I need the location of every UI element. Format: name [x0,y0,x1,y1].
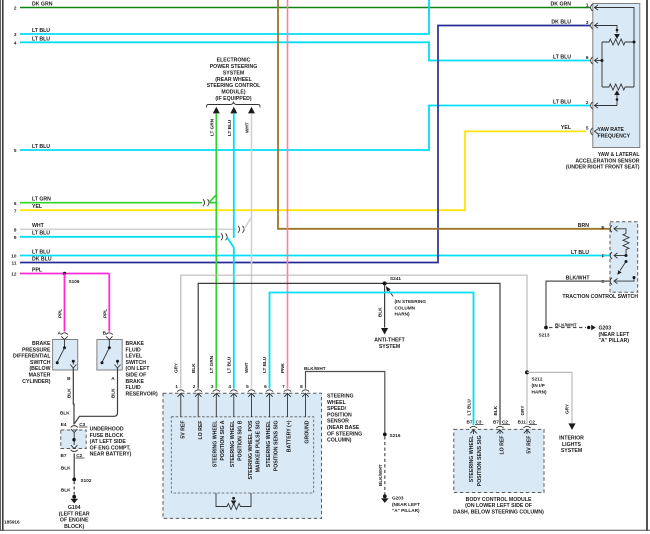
svg-text:B11: B11 [518,419,527,424]
svg-text:BRAKE: BRAKE [126,379,145,385]
svg-text:2: 2 [14,6,17,11]
interior lights system label [559,436,584,455]
svg-text:LIGHTS: LIGHTS [562,442,582,448]
svg-text:B7: B7 [467,419,473,424]
svg-text:LT BLU: LT BLU [227,356,232,373]
svg-text:HARN): HARN) [532,389,548,394]
svg-text:INTERIOR: INTERIOR [559,436,584,442]
svg-text:WHEEL: WHEEL [327,400,347,406]
svg-text:SYSTEM: SYSTEM [379,344,400,350]
ground G203 right [587,326,590,329]
svg-text:5: 5 [246,384,249,389]
svg-text:2: 2 [193,384,196,389]
svg-text:POSITION SENS SIG: POSITION SENS SIG [273,421,279,472]
yaw sensor box U1 [593,4,640,148]
svg-text:FREQUENCY: FREQUENCY [598,134,631,140]
svg-text:G104: G104 [68,505,81,511]
underhood fuse block internal wire [73,433,75,446]
svg-text:(NEAR BASE: (NEAR BASE [327,425,360,431]
svg-text:S102: S102 [81,478,92,483]
svg-text:STEERING WHEEL: STEERING WHEEL [230,420,236,468]
traction control switch box [610,222,638,292]
svg-text:3: 3 [586,20,589,25]
svg-text:6: 6 [586,55,589,60]
svg-text:SYSTEM: SYSTEM [223,70,244,76]
svg-text:G203: G203 [392,496,404,501]
svg-text:ELECTRONIC: ELECTRONIC [217,58,251,64]
svg-text:GRY: GRY [174,362,179,373]
wire 6 inline connector [203,199,209,206]
svg-text:BRAKE: BRAKE [32,341,51,347]
svg-text:BLK/WHT: BLK/WHT [555,322,577,327]
svg-text:(NEAR LEFT: (NEAR LEFT [392,502,420,507]
svg-text:S216: S216 [390,433,401,438]
BLK/WHT wire traction pin C to S213 [546,281,610,326]
LT BLU vertical wire to sensor pin 4 [233,248,235,389]
svg-text:4: 4 [14,41,17,46]
svg-text:C3: C3 [79,422,85,427]
svg-text:(NEAR LEFT: (NEAR LEFT [599,332,631,338]
svg-text:NEAR BATTERY): NEAR BATTERY) [90,452,132,458]
label brake pressure differential switch [13,341,51,385]
svg-text:E: E [601,225,604,230]
svg-text:"A" PILLAR): "A" PILLAR) [392,508,420,513]
GRY wire S212 to interior lights [527,372,572,423]
svg-text:LT BLU: LT BLU [553,99,571,105]
svg-text:ANTI-THEFT: ANTI-THEFT [374,338,405,344]
svg-text:BLK/WHT: BLK/WHT [566,275,591,281]
EPS arrow LT GRN [213,107,220,114]
svg-text:C2: C2 [76,453,82,458]
svg-text:SWITCH: SWITCH [30,360,51,366]
BRN wire to traction control switch pin E [278,0,610,229]
wire 9 stub to pin 4 vertical [227,237,234,247]
svg-text:SENSOR: SENSOR [327,419,349,425]
svg-text:FLUID: FLUID [126,347,142,353]
svg-text:5: 5 [14,148,17,153]
BLK/WHT dashed wire S213 to G203 [549,327,586,329]
svg-text:PPL: PPL [102,309,107,318]
svg-text:STEERING WHEEL POS: STEERING WHEEL POS [248,420,254,480]
svg-text:(REAR WHEEL: (REAR WHEEL [215,77,252,83]
connector B7 C2 [71,445,77,448]
svg-text:(ON LEFT: (ON LEFT [126,366,151,372]
WHT vertical wire EPS to sensor pin 5 [251,113,253,388]
yaw internal wire pin1 to right rail [595,8,635,88]
svg-text:B7: B7 [493,419,499,424]
brace over EPS arrows [207,102,261,108]
svg-text:LT GRN: LT GRN [210,118,215,136]
svg-text:POWER STEERING: POWER STEERING [210,64,258,70]
svg-text:MARKER PULSE SIG: MARKER PULSE SIG [255,421,261,473]
splice S106 [63,272,67,276]
svg-text:12: 12 [11,272,17,277]
svg-text:2: 2 [586,100,589,105]
svg-text:LT BLU: LT BLU [571,250,589,256]
svg-text:7: 7 [282,384,285,389]
svg-text:LT GRN: LT GRN [32,197,51,203]
PPL wire to brake fluid level switch pin B [108,274,110,332]
label underhood fuse block [90,427,132,458]
svg-text:SYSTEM: SYSTEM [561,448,582,454]
svg-text:LT BLU: LT BLU [32,249,50,255]
svg-text:STEERING: STEERING [327,394,354,400]
PNK vertical wire to sensor pin 7 [287,0,289,389]
svg-text:(LEFT REAR: (LEFT REAR [59,511,90,517]
svg-text:10: 10 [11,254,17,259]
sensor inner module box [171,417,313,493]
svg-text:LEVEL: LEVEL [126,354,144,360]
svg-text:C2: C2 [502,419,508,424]
svg-text:GROUND: GROUND [305,420,311,443]
body control module box [454,429,544,492]
svg-text:YAW & LATERAL: YAW & LATERAL [598,152,641,158]
svg-text:BRN: BRN [578,223,589,229]
svg-text:MODULE): MODULE) [221,90,245,96]
ground G203 lower [383,494,387,498]
brake fluid level switch box [97,340,122,371]
sensor internal potentiometer [216,493,251,510]
traction resistor [614,229,626,234]
svg-text:DK GRN: DK GRN [551,2,572,8]
svg-text:5V REF: 5V REF [527,436,533,454]
EPS arrow WHT [248,107,255,114]
svg-text:FUSE BLOCK: FUSE BLOCK [90,433,124,439]
sensor internal labels [181,420,311,480]
yaw internal wiper pin3 [595,26,618,34]
svg-text:CYLINDER): CYLINDER) [22,379,51,385]
in steering column harn label [395,299,427,317]
anti-theft system label [374,338,405,350]
underhood fuse block box [61,430,86,449]
BLK wire from switch 2 [75,368,118,424]
svg-text:185916: 185916 [4,520,20,525]
svg-text:POSITION: POSITION [327,412,352,418]
svg-text:E4: E4 [61,422,67,427]
svg-text:(UNDER RIGHT FRONT SEAT): (UNDER RIGHT FRONT SEAT) [566,165,640,171]
brake pressure differential switch internals [64,340,66,348]
svg-text:SWITCH: SWITCH [126,360,147,366]
svg-text:8: 8 [300,384,303,389]
svg-text:S106: S106 [69,279,80,284]
svg-text:PNK: PNK [280,362,285,373]
svg-text:STEERING WHEEL: STEERING WHEEL [469,435,475,483]
svg-text:B7: B7 [61,453,67,458]
ground G104 [72,495,76,499]
svg-text:8: 8 [14,228,17,233]
svg-text:11: 11 [12,261,17,266]
svg-text:(ON LOWER LEFT SIDE OF: (ON LOWER LEFT SIDE OF [465,503,532,509]
splice S216 [383,433,387,437]
EPS arrow LT BLU [230,107,237,114]
svg-text:COLUMN: COLUMN [395,305,416,310]
splice S241 [383,281,387,285]
svg-text:LT BLU: LT BLU [227,119,232,136]
svg-text:LO REF: LO REF [500,436,506,455]
brake fluid level switch internals [108,340,110,348]
splice S213 [544,326,548,330]
svg-text:GRY: GRY [520,405,525,416]
svg-text:BLK: BLK [67,388,72,398]
PPL wire S106 to brake pressure differential switch pin A [64,274,66,332]
svg-text:YAW RATE: YAW RATE [598,127,625,133]
svg-text:STEERING WHEEL: STEERING WHEEL [213,420,219,468]
svg-text:ACCELERATION SENSOR: ACCELERATION SENSOR [575,158,639,164]
svg-text:SIDE OF: SIDE OF [126,373,147,379]
svg-text:3: 3 [14,32,17,37]
svg-text:WHT: WHT [32,223,45,229]
LT BLU vertical wire EPS to wire 9 [233,113,235,238]
svg-text:MASTER: MASTER [29,373,51,379]
yaw left rail [601,42,603,87]
svg-text:PPL: PPL [58,309,63,318]
label brake fluid level switch [126,341,158,397]
BLK wire S241 to anti-theft [384,285,386,328]
svg-text:BLK: BLK [378,307,383,317]
svg-text:SPEED/: SPEED/ [327,406,347,412]
svg-text:BLK: BLK [61,488,71,493]
svg-text:BLK: BLK [111,388,116,398]
svg-text:5V REF: 5V REF [181,421,187,439]
svg-text:YEL: YEL [32,204,43,210]
svg-text:5: 5 [586,126,589,131]
svg-text:WHT: WHT [245,122,250,133]
svg-text:OF ENG COMPT,: OF ENG COMPT, [90,445,131,451]
svg-text:GRY: GRY [565,403,570,414]
BLK/WHT dashed wire S216 to G203 [384,436,386,494]
svg-text:BLOCK): BLOCK) [64,524,84,530]
svg-text:POSITION SIG A: POSITION SIG A [220,420,226,460]
svg-text:BLK/WHT: BLK/WHT [304,366,326,371]
brake pressure differential switch box [53,340,78,371]
svg-text:RESERVOIR): RESERVOIR) [126,391,158,397]
svg-text:DK BLU: DK BLU [551,19,571,25]
yaw sensor caption [566,152,641,171]
svg-text:YEL: YEL [561,125,572,131]
svg-text:LT BLU: LT BLU [553,54,571,60]
BLK wire fuse block to S102 [73,453,75,477]
BLK wire sensor pin 2 to BCM B7 C2 [198,283,500,425]
yaw potentiometer R1 [602,39,634,45]
svg-text:7: 7 [14,208,17,213]
LT GRN vertical wire EPS to sensor pin 3 [215,113,217,388]
svg-text:(IN STEERING: (IN STEERING [395,299,427,304]
svg-text:BLK: BLK [493,405,498,415]
S241 leader arrow [388,289,393,296]
svg-text:(IF EQUIPPED): (IF EQUIPPED) [215,96,252,102]
svg-text:UNDERHOOD: UNDERHOOD [90,427,124,433]
svg-text:STEERING WHEEL: STEERING WHEEL [266,420,272,468]
svg-text:S213: S213 [539,333,550,338]
svg-text:1: 1 [586,2,589,7]
electronic power steering system label [207,58,261,102]
svg-text:LT BLU: LT BLU [32,144,50,150]
svg-text:LT BLU: LT BLU [262,356,267,373]
svg-text:S212: S212 [532,377,543,382]
traction switch lever [625,260,628,263]
splice S212 [525,370,529,374]
svg-text:STEERING CONTROL: STEERING CONTROL [207,83,261,89]
svg-text:BATTERY (+): BATTERY (+) [287,420,293,452]
svg-text:LO REF: LO REF [198,421,204,440]
svg-text:DK BLU: DK BLU [32,256,52,262]
svg-text:LT BLU: LT BLU [32,231,50,237]
svg-text:BLK: BLK [191,363,196,373]
svg-text:TRACTION CONTROL SWITCH: TRACTION CONTROL SWITCH [562,294,638,300]
BLK wire S102 to G104 [73,481,75,495]
svg-text:POSITION SENS SIG: POSITION SENS SIG [477,436,483,487]
wire 9 inline connector [221,233,227,240]
svg-text:C3: C3 [476,419,482,424]
svg-text:6: 6 [264,384,267,389]
wire 8 inline connector [238,226,244,233]
svg-text:"A" PILLAR): "A" PILLAR) [599,338,630,344]
svg-text:HARN): HARN) [395,312,411,317]
splice S102 [72,478,76,482]
svg-text:OF STEERING: OF STEERING [327,431,362,437]
svg-text:WHT: WHT [244,362,249,373]
svg-text:(AT LEFT SIDE: (AT LEFT SIDE [90,439,127,445]
svg-text:1: 1 [175,384,178,389]
svg-text:PPL: PPL [32,267,43,273]
wire 8 stub to WHT vertical [244,217,252,229]
BLK/WHT wire sensor pin 8 to S216 [306,372,385,433]
BCM internal labels [469,435,533,487]
svg-text:BLK/WHT: BLK/WHT [378,464,383,486]
svg-text:PRESSURE: PRESSURE [22,347,51,353]
svg-text:BLK: BLK [60,411,70,416]
svg-text:F: F [602,253,605,258]
wire 6 stub to LT GRN vertical [209,202,216,204]
svg-text:C2: C2 [529,419,535,424]
svg-text:OF ENGINE: OF ENGINE [60,518,89,524]
svg-text:LT BLU: LT BLU [467,399,472,416]
steering wheel speed/position sensor caption [327,394,362,444]
svg-text:LT GRN: LT GRN [209,355,214,373]
BLK wire from switch 1 [72,368,75,425]
svg-text:4: 4 [228,384,231,389]
yaw wiper pin2 [614,90,620,95]
svg-text:9: 9 [14,235,17,240]
yaw potentiometer R2 [602,84,634,90]
svg-text:FLUID: FLUID [126,385,142,391]
svg-text:S241: S241 [390,276,401,281]
svg-text:(IN I/P: (IN I/P [532,383,545,388]
body control module caption [453,497,544,516]
svg-text:COLUMN): COLUMN) [327,438,352,444]
GRY wire sensor pin 1 to BCM B11 C2 [181,275,527,425]
svg-text:BRAKE: BRAKE [126,341,145,347]
svg-text:DASH, BELOW STEERING COLUMN): DASH, BELOW STEERING COLUMN) [453,509,544,515]
svg-text:DIFFERENTIAL: DIFFERENTIAL [13,354,51,360]
svg-text:BODY CONTROL MODULE: BODY CONTROL MODULE [466,497,532,503]
svg-text:BLK: BLK [61,466,71,471]
svg-text:G203: G203 [599,326,612,332]
svg-text:(BELOW: (BELOW [29,366,50,372]
svg-text:DK GRN: DK GRN [32,2,53,8]
svg-text:POSITION SIG B: POSITION SIG B [238,420,244,461]
LT BLU wire sensor pin 6 to BCM B7 C3 [270,293,474,426]
steering wheel speed/position sensor box [163,393,322,518]
svg-text:6: 6 [14,201,17,206]
svg-text:3: 3 [211,384,214,389]
